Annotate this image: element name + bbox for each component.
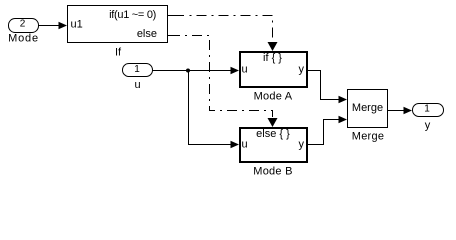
svg-text:Mode A: Mode A bbox=[254, 91, 293, 103]
svg-text:y: y bbox=[425, 120, 431, 132]
wire Mode to If u1 bbox=[39, 25, 61, 27]
svg-text:u: u bbox=[134, 79, 140, 91]
svg-text:y: y bbox=[299, 139, 305, 151]
svg-text:else: else bbox=[137, 28, 157, 40]
svg-text:u: u bbox=[242, 139, 248, 151]
svg-text:Mode B: Mode B bbox=[253, 166, 292, 178]
svg-text:Mode: Mode bbox=[8, 33, 39, 45]
svg-text:u1: u1 bbox=[71, 19, 83, 31]
svg-text:Merge: Merge bbox=[352, 102, 383, 114]
inport 2 (Mode) oval bbox=[9, 19, 39, 33]
Mode B block bbox=[240, 128, 307, 162]
wire branch to Mode B bbox=[189, 71, 232, 145]
junction bbox=[186, 69, 190, 73]
inport 1 (u) oval bbox=[123, 64, 153, 77]
wire Mode B y to Merge bbox=[308, 120, 339, 145]
wire Merge to outport y bbox=[388, 110, 405, 112]
svg-text:Merge: Merge bbox=[352, 131, 384, 143]
svg-text:u: u bbox=[242, 64, 248, 76]
svg-text:2: 2 bbox=[20, 19, 26, 30]
else-action dash-dot wire to Mode B bbox=[168, 35, 181, 37]
wire Mode A y to Merge bbox=[308, 71, 339, 100]
if-action dash-dot wire to Mode A bbox=[168, 15, 185, 17]
Merge block bbox=[348, 90, 388, 128]
svg-text:1: 1 bbox=[424, 104, 430, 115]
wire u to Mode A bbox=[153, 70, 233, 72]
If block bbox=[68, 6, 168, 43]
outport 1 (y) oval bbox=[413, 104, 444, 117]
svg-text:If: If bbox=[115, 47, 122, 59]
Mode A block bbox=[240, 52, 307, 87]
svg-text:y: y bbox=[299, 64, 305, 76]
svg-text:if(u1 ~= 0): if(u1 ~= 0) bbox=[109, 9, 156, 21]
svg-text:if { }: if { } bbox=[263, 52, 282, 64]
svg-text:else { }: else { } bbox=[256, 128, 290, 140]
svg-text:1: 1 bbox=[134, 64, 140, 75]
